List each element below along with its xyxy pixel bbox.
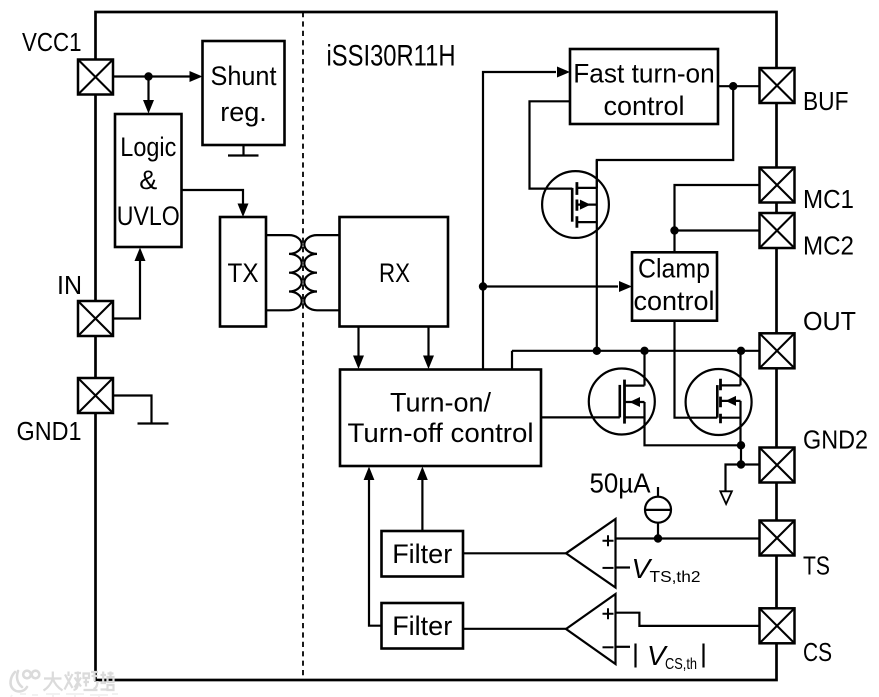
svg-text:VCC1: VCC1 [22, 27, 82, 57]
svg-text:Clamp: Clamp [638, 254, 710, 284]
svg-text:reg.: reg. [220, 97, 267, 127]
svg-text:control: control [603, 91, 684, 121]
svg-text:OUT: OUT [803, 306, 856, 336]
svg-text:Shunt: Shunt [211, 61, 277, 91]
svg-text:GND2: GND2 [803, 425, 868, 455]
svg-text:control: control [633, 286, 714, 316]
svg-text:BUF: BUF [803, 86, 849, 116]
svg-text:IN: IN [57, 270, 82, 300]
svg-text:TS,th2: TS,th2 [650, 569, 701, 586]
svg-text:iSSI30R11H: iSSI30R11H [327, 40, 456, 73]
svg-text:Logic: Logic [120, 132, 176, 162]
svg-text:RX: RX [379, 258, 410, 288]
svg-text:MC1: MC1 [803, 184, 854, 214]
svg-text:TX: TX [228, 258, 259, 288]
svg-text:Filter: Filter [392, 539, 452, 569]
svg-text:CS: CS [803, 637, 832, 667]
svg-text:Fast turn-on: Fast turn-on [573, 59, 715, 89]
svg-text:50µA: 50µA [590, 468, 651, 499]
svg-text:Turn-off control: Turn-off control [348, 418, 534, 448]
svg-text:UVLO: UVLO [117, 201, 180, 231]
svg-text:TS: TS [803, 551, 830, 581]
svg-text:Turn-on/: Turn-on/ [390, 388, 492, 418]
svg-text:&: & [139, 165, 157, 195]
svg-text:CS,th: CS,th [665, 656, 697, 673]
svg-text:GND1: GND1 [17, 416, 82, 446]
svg-text:MC2: MC2 [803, 231, 854, 261]
svg-text:Filter: Filter [392, 611, 452, 641]
